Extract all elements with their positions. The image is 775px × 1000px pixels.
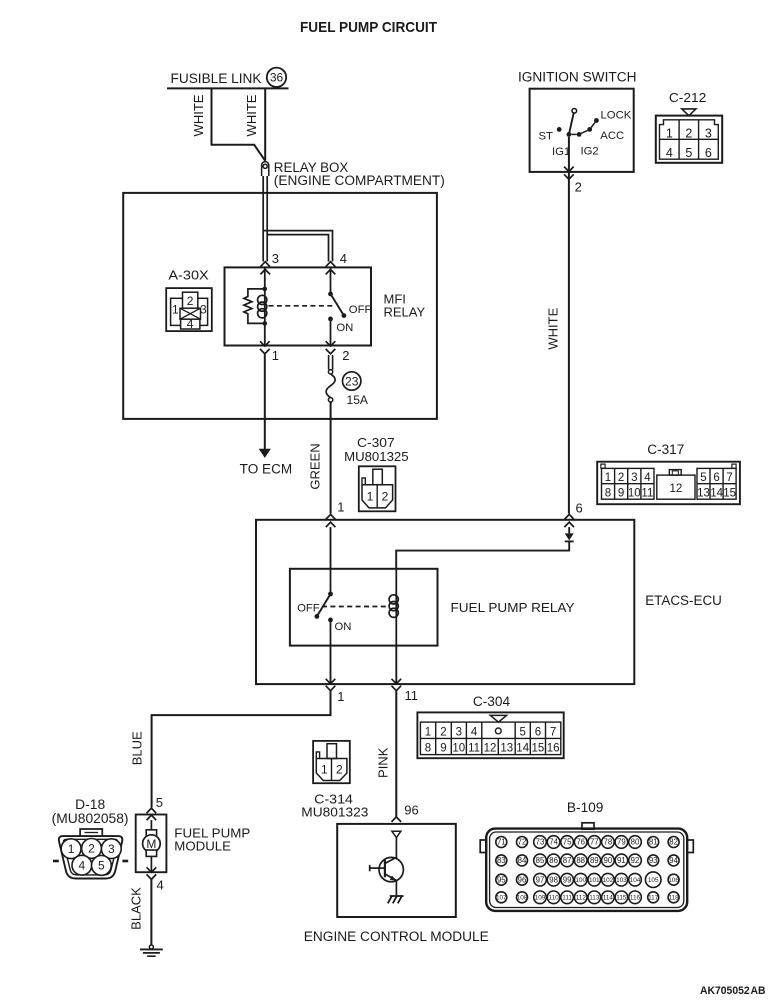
svg-text:93: 93 xyxy=(649,856,658,865)
pin 4 chevrons xyxy=(326,262,336,275)
ecm input triangle xyxy=(392,831,401,837)
connector C-314 xyxy=(313,741,350,783)
svg-text:4: 4 xyxy=(187,317,194,331)
B-109 pin circles xyxy=(496,836,680,904)
svg-text:5: 5 xyxy=(685,146,692,160)
fusible link bus line xyxy=(167,87,289,89)
svg-text:AK705052 AB: AK705052 AB xyxy=(700,985,766,997)
svg-text:75: 75 xyxy=(563,838,572,847)
svg-text:88: 88 xyxy=(576,856,585,865)
svg-text:74: 74 xyxy=(549,838,558,847)
C-317 connector outer xyxy=(597,462,740,505)
motor wire bottom xyxy=(150,856,152,872)
svg-text:85: 85 xyxy=(536,856,545,865)
ignition lever xyxy=(569,113,574,134)
svg-text:9: 9 xyxy=(440,743,446,755)
connector C-307 xyxy=(359,466,396,511)
pin 2 chevrons xyxy=(326,341,336,354)
svg-text:7: 7 xyxy=(550,726,556,738)
svg-text:12: 12 xyxy=(670,483,683,495)
svg-text:4: 4 xyxy=(79,859,86,873)
svg-text:OFF: OFF xyxy=(297,602,320,614)
A-30X pin numbers xyxy=(172,294,207,331)
svg-text:1: 1 xyxy=(172,303,179,317)
svg-text:81: 81 xyxy=(649,838,658,847)
ignition ST dot xyxy=(557,127,562,132)
svg-text:105: 105 xyxy=(648,877,659,884)
svg-text:WHITE: WHITE xyxy=(546,307,561,349)
svg-text:C-304: C-304 xyxy=(473,694,511,709)
svg-text:1: 1 xyxy=(68,842,75,856)
svg-text:13: 13 xyxy=(500,743,513,755)
fuse circle bottom xyxy=(328,398,332,402)
motor brush bottom xyxy=(146,850,156,856)
C-317 corner squares xyxy=(601,464,736,468)
svg-text:11: 11 xyxy=(468,743,480,755)
A-30X connector xyxy=(166,288,212,331)
C-304 grid xyxy=(420,722,560,755)
svg-text:14: 14 xyxy=(710,488,723,500)
etacs diode xyxy=(565,533,574,540)
ignition pin 2 chevrons xyxy=(564,167,574,180)
ignition pivot dot IG1 xyxy=(567,132,572,137)
ground symbol xyxy=(140,945,163,956)
svg-text:16: 16 xyxy=(547,743,560,755)
svg-text:1: 1 xyxy=(367,489,374,503)
relay OFF contact dot xyxy=(342,313,347,318)
etacs pin1 chevrons xyxy=(326,514,336,527)
pin 1 chevrons xyxy=(260,341,270,354)
svg-text:BLUE: BLUE xyxy=(129,731,144,765)
svg-text:WHITE: WHITE xyxy=(244,94,259,136)
svg-text:91: 91 xyxy=(617,856,626,865)
ecm chassis ground xyxy=(388,896,404,903)
svg-text:ENGINE CONTROL MODULE: ENGINE CONTROL MODULE xyxy=(304,929,489,944)
junction dot bottom xyxy=(263,321,268,326)
svg-text:113: 113 xyxy=(589,895,600,902)
svg-text:86: 86 xyxy=(549,856,558,865)
C-212 connector box xyxy=(656,116,722,163)
C-314 pin numbers xyxy=(321,762,343,776)
relay switch blade xyxy=(331,294,344,315)
C-317 right block xyxy=(697,468,736,499)
relay resistor xyxy=(244,289,265,324)
svg-text:71: 71 xyxy=(497,838,506,847)
svg-text:3: 3 xyxy=(705,126,712,140)
svg-text:RELAY: RELAY xyxy=(384,305,426,320)
svg-text:1: 1 xyxy=(605,472,611,484)
svg-text:9: 9 xyxy=(618,488,624,500)
svg-text:C-317: C-317 xyxy=(647,442,684,457)
fuel pump module box xyxy=(136,815,167,873)
svg-text:80: 80 xyxy=(631,838,640,847)
svg-text:99: 99 xyxy=(563,875,572,884)
svg-text:MODULE: MODULE xyxy=(174,839,231,854)
svg-text:114: 114 xyxy=(603,895,614,902)
relay switch wire top xyxy=(330,267,332,294)
svg-text:72: 72 xyxy=(518,838,527,847)
svg-text:ETACS-ECU: ETACS-ECU xyxy=(645,593,722,608)
svg-text:97: 97 xyxy=(536,875,545,884)
etacs exit pin1 chevrons xyxy=(326,679,336,691)
svg-text:5: 5 xyxy=(700,472,706,484)
svg-text:BLACK: BLACK xyxy=(128,887,143,930)
svg-text:2: 2 xyxy=(342,348,349,363)
pump pin4 chevrons xyxy=(147,867,157,879)
svg-text:FUEL PUMP CIRCUIT: FUEL PUMP CIRCUIT xyxy=(300,19,437,36)
svg-text:15: 15 xyxy=(532,743,545,755)
fuse wavy element xyxy=(326,374,335,398)
svg-text:3: 3 xyxy=(200,303,207,317)
fuse double wire xyxy=(329,355,333,370)
C-317 pin numbers xyxy=(605,472,736,500)
etacs internal wire switch side xyxy=(330,527,332,569)
svg-text:12: 12 xyxy=(484,743,497,755)
svg-text:2: 2 xyxy=(382,489,389,503)
svg-text:2: 2 xyxy=(575,179,582,194)
wire green down xyxy=(330,402,332,514)
svg-text:90: 90 xyxy=(604,856,613,865)
ignition LOCK dot xyxy=(594,118,599,123)
svg-text:84: 84 xyxy=(518,856,527,865)
C-304 pin numbers xyxy=(425,726,560,754)
arrow to ECM xyxy=(259,449,271,458)
svg-text:112: 112 xyxy=(576,895,587,902)
svg-text:117: 117 xyxy=(648,895,659,902)
svg-text:2: 2 xyxy=(187,294,194,308)
svg-text:3: 3 xyxy=(108,842,115,856)
B-109 connector body xyxy=(480,823,693,911)
svg-text:103: 103 xyxy=(616,877,627,884)
svg-text:10: 10 xyxy=(628,488,641,500)
svg-text:ACC: ACC xyxy=(600,130,624,142)
engine control module box xyxy=(337,824,456,917)
svg-text:116: 116 xyxy=(630,895,641,902)
svg-text:IG1: IG1 xyxy=(552,146,570,158)
ignition IG2 dot xyxy=(577,132,582,137)
ecm wire to transistor xyxy=(395,838,397,859)
etacs exit pin11 chevrons xyxy=(392,679,402,691)
svg-text:8: 8 xyxy=(425,743,431,755)
D-18 connector body xyxy=(53,829,128,879)
svg-text:1: 1 xyxy=(321,762,328,776)
relay coil wire xyxy=(264,267,266,345)
fp relay switch wire top xyxy=(330,569,332,594)
motor wire top xyxy=(150,820,152,830)
svg-text:110: 110 xyxy=(549,895,560,902)
junction dot top xyxy=(263,287,268,292)
relay box outer xyxy=(123,193,437,419)
ETACS-ECU box xyxy=(256,520,634,684)
fp relay common dot xyxy=(328,592,333,597)
svg-text:14: 14 xyxy=(516,743,529,755)
svg-text:4: 4 xyxy=(666,146,673,160)
ignition switch box xyxy=(530,89,634,172)
svg-text:MU801325: MU801325 xyxy=(344,449,409,464)
svg-text:ON: ON xyxy=(335,621,352,633)
svg-text:11: 11 xyxy=(641,488,653,500)
svg-text:ON: ON xyxy=(336,322,353,334)
svg-text:2: 2 xyxy=(88,842,95,856)
svg-text:IGNITION SWITCH: IGNITION SWITCH xyxy=(518,69,637,84)
svg-text:6: 6 xyxy=(576,501,583,516)
relay dashed link xyxy=(269,305,336,307)
wire double vertical to pin3 xyxy=(263,176,267,262)
terminal symbol relay box entry xyxy=(262,162,269,176)
svg-text:5: 5 xyxy=(156,795,163,810)
svg-text:PINK: PINK xyxy=(375,747,390,778)
svg-text:77: 77 xyxy=(590,838,599,847)
ignition ACC dot xyxy=(587,127,592,132)
fp relay coil loops xyxy=(389,595,398,618)
svg-text:2: 2 xyxy=(618,472,624,484)
svg-text:78: 78 xyxy=(604,838,613,847)
C-212 grid xyxy=(660,120,719,159)
wire to ECM xyxy=(264,355,266,450)
svg-text:104: 104 xyxy=(630,877,641,884)
svg-text:5: 5 xyxy=(519,726,525,738)
etacs diode bar xyxy=(565,540,574,542)
wire left white xyxy=(212,88,266,160)
transistor base bar xyxy=(384,860,386,877)
svg-text:73: 73 xyxy=(536,838,545,847)
pump pin5 chevrons xyxy=(147,808,157,820)
transistor collector xyxy=(385,857,397,863)
svg-text:4: 4 xyxy=(471,726,478,738)
wire blue xyxy=(152,691,331,808)
svg-text:ST: ST xyxy=(539,130,554,142)
svg-text:15: 15 xyxy=(723,488,736,500)
svg-text:LOCK: LOCK xyxy=(601,109,632,121)
svg-text:FUSIBLE LINK: FUSIBLE LINK xyxy=(171,71,262,86)
svg-text:11: 11 xyxy=(405,688,419,703)
svg-text:7: 7 xyxy=(726,472,732,484)
ignition contact links xyxy=(571,123,595,135)
relay switch common dot xyxy=(328,292,333,297)
svg-text:1: 1 xyxy=(666,126,673,140)
svg-text:92: 92 xyxy=(631,856,640,865)
svg-text:23: 23 xyxy=(345,374,359,388)
fuel pump relay box xyxy=(290,569,438,646)
svg-text:15A: 15A xyxy=(347,393,369,407)
etacs internal wire to coil xyxy=(396,541,569,568)
svg-text:3: 3 xyxy=(456,726,462,738)
svg-text:1: 1 xyxy=(337,500,344,515)
relay coil loops xyxy=(258,295,267,318)
transistor circle xyxy=(379,857,403,881)
svg-text:6: 6 xyxy=(535,726,541,738)
svg-text:FUEL PUMP RELAY: FUEL PUMP RELAY xyxy=(451,600,575,615)
svg-text:OFF: OFF xyxy=(349,304,372,316)
svg-text:TO ECM: TO ECM xyxy=(240,461,293,476)
fp relay ON dot xyxy=(328,618,333,623)
svg-text:1: 1 xyxy=(337,689,344,704)
C-212 pin numbers xyxy=(666,126,712,160)
svg-text:94: 94 xyxy=(669,856,678,865)
svg-text:2: 2 xyxy=(336,762,343,776)
wire pink xyxy=(395,691,397,817)
svg-text:107: 107 xyxy=(496,895,507,902)
ecm pin96 chevron xyxy=(392,817,402,822)
transistor base tick xyxy=(369,865,371,871)
svg-text:C-212: C-212 xyxy=(669,90,706,105)
svg-text:B-109: B-109 xyxy=(567,800,604,815)
svg-text:79: 79 xyxy=(617,838,626,847)
relay switch wire bottom xyxy=(330,319,332,346)
svg-text:83: 83 xyxy=(497,856,506,865)
svg-text:106: 106 xyxy=(668,877,679,884)
svg-text:96: 96 xyxy=(404,803,418,818)
etacs diode wire top xyxy=(568,527,570,533)
svg-text:8: 8 xyxy=(605,488,611,500)
transistor base lead xyxy=(370,867,385,869)
fp relay coil wire xyxy=(395,569,397,646)
motor brush top xyxy=(146,830,156,838)
svg-text:6: 6 xyxy=(705,146,712,160)
svg-text:10: 10 xyxy=(452,743,465,755)
svg-text:4: 4 xyxy=(340,251,347,266)
fp relay blade xyxy=(317,594,330,616)
wire right white xyxy=(264,88,266,160)
relay ON contact dot xyxy=(328,317,333,322)
svg-text:2: 2 xyxy=(440,726,446,738)
svg-text:GREEN: GREEN xyxy=(308,443,323,489)
svg-text:WHITE: WHITE xyxy=(191,94,206,136)
motor circle xyxy=(143,835,161,853)
svg-text:(ENGINE COMPARTMENT): (ENGINE COMPARTMENT) xyxy=(274,173,445,188)
pin 3 chevrons xyxy=(260,262,270,275)
svg-text:102: 102 xyxy=(603,877,614,884)
fuse number 23 xyxy=(343,372,361,390)
wire black xyxy=(150,879,152,945)
svg-text:6: 6 xyxy=(713,472,719,484)
fp relay dashed link xyxy=(322,606,389,608)
C-317 middle block xyxy=(657,470,695,500)
svg-text:1: 1 xyxy=(272,348,279,363)
svg-text:3: 3 xyxy=(631,472,637,484)
ignition output wire xyxy=(568,137,570,514)
svg-text:A-30X: A-30X xyxy=(168,268,209,283)
svg-text:118: 118 xyxy=(669,895,680,902)
svg-text:4: 4 xyxy=(644,472,651,484)
svg-text:36: 36 xyxy=(270,71,284,85)
svg-text:111: 111 xyxy=(562,895,572,902)
svg-text:115: 115 xyxy=(616,895,627,902)
svg-text:IG2: IG2 xyxy=(581,146,599,158)
svg-text:96: 96 xyxy=(518,875,527,884)
svg-text:C-307: C-307 xyxy=(357,435,395,450)
fp relay OFF dot xyxy=(315,614,320,619)
wire etacs internal down right xyxy=(395,646,397,685)
svg-text:95: 95 xyxy=(497,875,506,884)
svg-text:3: 3 xyxy=(272,251,279,266)
svg-text:13: 13 xyxy=(697,488,710,500)
svg-text:109: 109 xyxy=(535,895,546,902)
svg-text:M: M xyxy=(146,837,156,851)
svg-text:D-18: D-18 xyxy=(75,797,105,812)
svg-text:76: 76 xyxy=(576,838,585,847)
fp relay switch wire bottom xyxy=(330,620,332,646)
svg-text:98: 98 xyxy=(549,875,558,884)
wire double branch to pin4 xyxy=(263,231,332,262)
svg-text:101: 101 xyxy=(589,877,600,884)
etacs pin6 chevrons xyxy=(564,514,574,527)
C-212 triangle xyxy=(682,109,696,116)
svg-text:108: 108 xyxy=(517,895,528,902)
fuse circle top xyxy=(328,370,332,374)
MFI relay box xyxy=(225,267,372,345)
svg-text:100: 100 xyxy=(575,877,586,884)
svg-text:4: 4 xyxy=(157,878,164,893)
ignition lever knob xyxy=(572,109,577,114)
svg-text:82: 82 xyxy=(669,838,678,847)
wire etacs internal down left xyxy=(330,646,332,685)
D-18 pin circles xyxy=(61,839,121,876)
C-317 left block xyxy=(602,468,655,499)
svg-text:MU801323: MU801323 xyxy=(301,805,368,820)
C-304 connector outer xyxy=(417,712,563,758)
svg-text:(MU802058): (MU802058) xyxy=(52,811,129,826)
C-307 pin numbers xyxy=(367,489,389,503)
svg-text:1: 1 xyxy=(425,726,431,738)
svg-text:87: 87 xyxy=(563,856,572,865)
C-304 triangle xyxy=(490,715,506,722)
svg-text:89: 89 xyxy=(590,856,599,865)
D-18 pin numbers xyxy=(68,842,115,873)
ecm ground wire xyxy=(395,881,397,896)
transistor emitter arrow xyxy=(390,876,397,881)
svg-text:2: 2 xyxy=(685,126,692,140)
fusible link number 36 xyxy=(267,68,286,87)
svg-text:5: 5 xyxy=(98,859,105,873)
transistor emitter xyxy=(385,874,397,881)
C-212 inner box xyxy=(660,120,719,159)
